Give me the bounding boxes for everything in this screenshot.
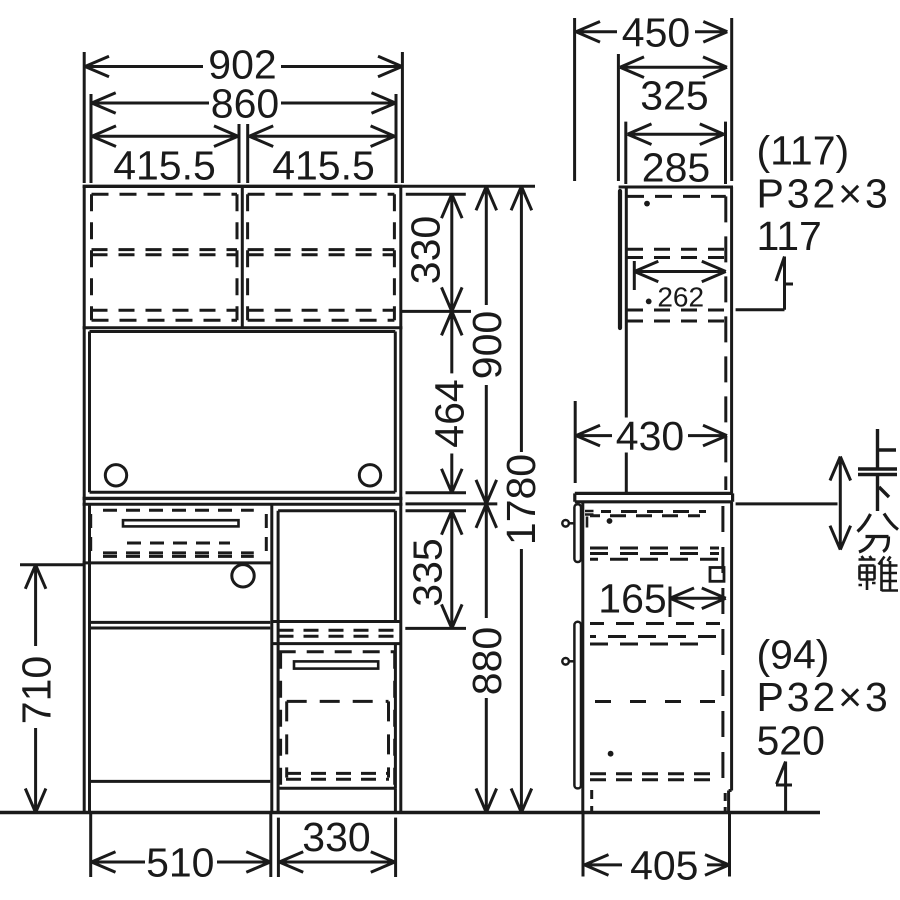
front view: lower left drawer (dashed box)	[91, 510, 267, 556]
dim 1780 label	[498, 454, 544, 545]
dim 330 bottom label	[302, 814, 370, 860]
dim 262 tick	[633, 261, 636, 290]
svg-text:P32×3: P32×3	[757, 674, 891, 720]
note kanji bun (divide)	[858, 514, 899, 553]
svg-text:330: 330	[302, 814, 370, 860]
front view: top section shelf (dashed double line)	[92, 250, 395, 255]
leader for 117	[736, 257, 793, 310]
dim 860 line	[92, 93, 396, 114]
dim 165 line	[670, 588, 726, 609]
side view: lower unit right toe	[729, 791, 732, 813]
dim 710 line	[25, 565, 46, 813]
dim 900 label	[464, 311, 510, 379]
dim 902 line	[85, 56, 402, 77]
extension line at bottom of middle section	[406, 491, 467, 494]
side view: lower unit back dashed line	[721, 506, 724, 788]
svg-text:117: 117	[757, 213, 822, 259]
side view: lower unit right wall	[730, 502, 733, 791]
note 117	[757, 213, 822, 259]
dim 902 label	[208, 42, 276, 88]
front view: lower right niche bottom	[272, 620, 401, 623]
front view: top left sliding door (dashed)	[92, 194, 238, 320]
front view: lower left toe kick line	[89, 780, 270, 783]
dim 880 line	[476, 504, 497, 813]
svg-text:(117): (117)	[757, 128, 850, 174]
side view: shelf pin dot lower	[646, 299, 652, 305]
svg-text:P32×3: P32×3	[757, 171, 891, 217]
svg-text:1780: 1780	[498, 454, 544, 545]
dim 330 label	[402, 216, 448, 284]
front view: top section bottom board	[83, 328, 403, 332]
separation double arrow	[830, 457, 851, 550]
side view: upper joint bolt	[562, 520, 574, 527]
side view: top dashed line	[627, 195, 726, 198]
side view: right toe dashed	[724, 793, 727, 811]
right side extension line at cabinet top	[402, 185, 535, 188]
floor line	[0, 811, 820, 814]
note P32x3 upper	[757, 171, 891, 217]
note P32x3 lower	[757, 674, 891, 720]
leader for 520	[776, 762, 792, 813]
svg-text:415.5: 415.5	[113, 143, 216, 189]
separation line	[736, 502, 838, 505]
dim 710 label	[14, 656, 60, 724]
svg-text:464: 464	[427, 379, 473, 447]
svg-text:710: 710	[14, 656, 60, 724]
dim 430 extension line	[574, 401, 577, 483]
front view: middle section inner walls	[90, 332, 396, 493]
dim 710 extension line	[20, 563, 83, 566]
front view: lower left inner wall	[88, 504, 91, 812]
svg-text:430: 430	[616, 413, 684, 459]
front view: middle section left knob	[105, 465, 126, 486]
side view: lower unit left wall	[581, 502, 584, 813]
side view: lower unit top interior dashed rows	[590, 512, 706, 516]
svg-text:335: 335	[404, 538, 450, 606]
dim 335 label	[404, 538, 450, 606]
front view: cabinet outer walls	[84, 186, 401, 812]
side view: counter board	[575, 493, 733, 501]
front view: lower cabinet divider walls	[272, 504, 278, 812]
dim 330 line	[442, 194, 463, 311]
svg-text:880: 880	[464, 627, 510, 695]
front view: middle section bottom / counter top lines	[83, 492, 403, 504]
dim 464 label	[427, 379, 473, 447]
dim 405 label	[630, 842, 698, 888]
dim 860 label	[211, 81, 279, 127]
dim 285 label	[642, 145, 710, 191]
dim 165 tick	[669, 587, 672, 618]
dim 415.5 left line	[92, 126, 238, 147]
dim 902 extension lines	[84, 52, 402, 183]
front view: lower right board line	[272, 642, 401, 645]
front view: top right sliding door (dashed)	[248, 194, 395, 320]
front view: lower left drawer handle	[123, 520, 239, 526]
front view: lower right drawer dashed sides	[281, 652, 395, 790]
dim 335 line	[442, 511, 463, 629]
extension line door top right	[406, 193, 466, 196]
dim 1780 line	[511, 186, 532, 812]
dim 325 extension line	[617, 54, 620, 181]
dim 415.5 right label	[272, 143, 375, 189]
dim 415.5 center extension lines	[239, 124, 248, 183]
front view: cabinet top board	[83, 185, 403, 188]
extension line at 330/464 boundary	[401, 310, 471, 313]
svg-text:510: 510	[146, 840, 214, 886]
extension line at lower unit top board	[406, 509, 467, 512]
side view: upper cabinet box	[619, 187, 733, 493]
side view: back dashed line	[724, 196, 727, 490]
side view: upper joint ticks	[585, 511, 594, 528]
dim 285 line	[628, 124, 724, 145]
extension line at niche bottom	[405, 627, 466, 630]
front view: line under left drawer	[83, 561, 272, 564]
side view: bottom interior dashed rows	[590, 774, 712, 780]
svg-text:325: 325	[640, 73, 708, 119]
dim 464 line	[442, 311, 463, 492]
dim 510 extension line	[89, 814, 92, 877]
side view: lower unit left toe dashed	[590, 790, 593, 812]
front view: top section center divider	[241, 186, 244, 327]
side view: upper cabinet door (thick front line)	[618, 191, 622, 328]
svg-text:900: 900	[464, 311, 510, 379]
front view: lower right dashed shelf rows	[279, 630, 395, 636]
side view: drawer dot lower	[608, 751, 614, 757]
note (94)	[757, 631, 830, 677]
side view: back panel square hole	[710, 568, 724, 582]
svg-text:262: 262	[657, 282, 704, 313]
side view: upper joint plate	[574, 504, 581, 562]
front view: lower right drawer inner dashed box	[287, 701, 389, 777]
dim 405 line	[585, 855, 730, 876]
svg-text:(94): (94)	[757, 631, 830, 677]
dim 415.5 right line	[249, 126, 394, 147]
svg-text:450: 450	[622, 9, 690, 55]
front view: lower left drawer inner dashed rows	[103, 543, 254, 553]
front view: middle section right knob	[359, 465, 380, 486]
dim 450 line	[576, 22, 727, 43]
note 520	[757, 717, 825, 763]
dim 900 line	[476, 186, 497, 504]
svg-text:285: 285	[642, 145, 710, 191]
dim 510/330 shared extension lines	[271, 814, 279, 877]
side view: shelf pin dot upper	[644, 201, 650, 207]
side view: middle interior dashed rows	[590, 548, 719, 559]
note kanji ue (up)	[858, 429, 897, 469]
side view: lower interior sparse dashed row	[595, 700, 715, 703]
front view: lower left door knob	[232, 565, 254, 587]
front view: lower right drawer top dashed row	[279, 650, 396, 653]
dim 405 extension lines	[583, 813, 730, 877]
dim 262 line	[634, 261, 726, 282]
front view: lower right inner wall segments	[394, 511, 397, 788]
dim 330 bottom line	[279, 852, 395, 873]
front view: lower right drawer bottom line	[278, 787, 396, 790]
svg-text:415.5: 415.5	[272, 143, 375, 189]
side view: upper bottom dashed rows	[627, 310, 726, 321]
dim 430 line	[576, 425, 727, 446]
note kanji ri (separate)	[859, 556, 899, 591]
note kanji shita (down)	[858, 475, 897, 512]
svg-text:860: 860	[211, 81, 279, 127]
dim 880 label	[464, 627, 510, 695]
svg-text:165: 165	[598, 576, 666, 622]
dim 415.5 left label	[113, 143, 216, 189]
dim 430 label	[616, 413, 684, 459]
side view: drawer dot upper	[607, 518, 613, 524]
side view: lower joint plate (front frame strip)	[574, 622, 581, 789]
front view: top section bottom inner dashed line	[92, 309, 395, 312]
dim 330 bottom right extension line	[394, 818, 397, 877]
svg-text:330: 330	[402, 216, 448, 284]
note (117)	[757, 128, 850, 174]
dim 450 extension lines	[575, 18, 732, 181]
front view: lower right drawer handle	[294, 661, 378, 668]
dim 165 label	[598, 576, 666, 622]
front view: lower right niche top board	[278, 509, 395, 512]
dim 285 extension lines	[626, 122, 726, 184]
dim 325 line	[620, 57, 727, 78]
svg-text:520: 520	[757, 717, 825, 763]
side view: lower joint bolt	[562, 658, 574, 665]
front view: lower right inner wall bottom segment	[394, 788, 397, 812]
dim 262 label	[657, 282, 704, 313]
front view: lower right drawer bottom dashed rows	[286, 773, 389, 779]
side view: lower interior dashed rows 2	[590, 624, 720, 645]
extension line at upper/lower split	[406, 502, 498, 505]
dim 860 extension lines	[91, 94, 396, 183]
dim 510 line	[92, 852, 271, 873]
svg-text:405: 405	[630, 842, 698, 888]
dim 450 label	[622, 9, 690, 55]
side view: upper shelf dashed rows	[627, 249, 726, 257]
dim 510 label	[146, 840, 214, 886]
front view: lower left shelf board (double line)	[89, 622, 270, 628]
dim 325 label	[640, 73, 708, 119]
